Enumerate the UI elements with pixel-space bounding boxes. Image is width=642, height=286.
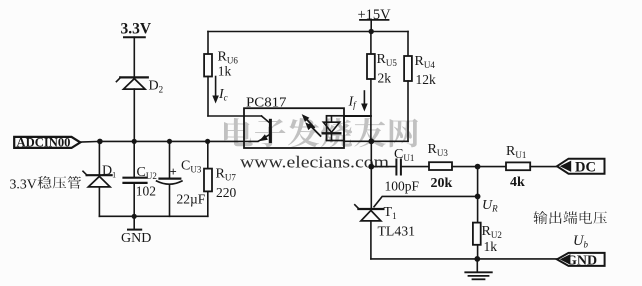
resistor R_U4 [404,32,412,142]
wire ADCIN00 to bus [80,140,100,143]
arrow I_c [212,77,219,104]
svg-text:4k: 4k [510,175,525,190]
resistor R_U7 [204,141,212,216]
arrow light arrows [302,114,321,136]
ground earth symbol [465,259,492,279]
wire junction down [370,141,372,208]
node dot bottom rail [474,256,480,262]
node dot left rail [132,214,137,219]
wire 3.3V supply drop [124,37,145,76]
diode LED inside PC817 [323,116,344,141]
resistor R_U2 [473,196,481,259]
capacitor C_U3 electrolytic [157,141,182,216]
svg-text:3.3V: 3.3V [10,177,37,192]
svg-text:+15V: +15V [358,7,392,23]
wire LED anode to R_U5 node [344,115,371,117]
transistor Q1 phototransistor [244,116,270,142]
wire LED cathode to junction [344,140,371,142]
arrow I_f [361,91,368,112]
capacitor C_U2 [124,141,147,216]
svg-text:DC: DC [575,159,596,175]
node DC tag [557,159,605,174]
zener D2 [116,77,147,141]
wire to C_U1 [371,166,396,168]
svg-text:20k: 20k [431,176,453,191]
node junction B [368,164,374,170]
wire top rail [208,31,408,33]
svg-text:220: 220 [216,185,237,200]
svg-text:PC817: PC817 [246,95,287,110]
svg-text:22µF: 22µF [177,192,206,207]
svg-text:GND: GND [121,231,151,246]
svg-text:2k: 2k [378,71,392,86]
capacitor C_U1 [396,160,429,175]
svg-text:12k: 12k [416,72,437,87]
power +15V stub [360,20,389,34]
svg-text:102: 102 [136,184,156,199]
svg-text:+: + [170,165,177,179]
wire R_U4 to junction [371,140,408,142]
svg-text:1k: 1k [484,239,498,254]
resistor R_U1 [478,162,558,170]
node junction A [368,138,374,144]
wire junction C down [477,167,479,197]
node ADCIN00 tag [14,137,80,148]
resistor R_U5 [367,32,375,142]
node junction C [475,164,481,170]
wire R_U6 to opto collector [208,115,244,117]
node junction D [475,194,481,200]
svg-text:100pF: 100pF [385,178,420,193]
ground GND left [128,216,141,229]
wire bottom rail [371,258,558,260]
wire left ground rail [99,215,207,217]
watermark 电子发烧友网 [224,118,418,147]
svg-text:3.3V: 3.3V [121,21,152,38]
resistor R_U6 [204,32,212,116]
node junction dots on bus [97,139,210,145]
svg-text:TL431: TL431 [378,224,416,239]
zener D1 [83,141,112,216]
svg-text:1k: 1k [218,64,232,79]
wire main bus [100,140,258,142]
svg-text:GND: GND [566,253,597,268]
node GND tag [557,253,605,266]
resistor R_U3 [429,162,478,170]
transistor T1 TL431 [355,205,384,259]
op-amp U1 PC817 box [244,108,344,148]
wire TL431 ref diagonal [374,196,478,206]
svg-text:www.elecians.com: www.elecians.com [240,153,389,172]
svg-text:ADCIN00: ADCIN00 [17,135,71,149]
label 输出端电压 [534,211,607,224]
